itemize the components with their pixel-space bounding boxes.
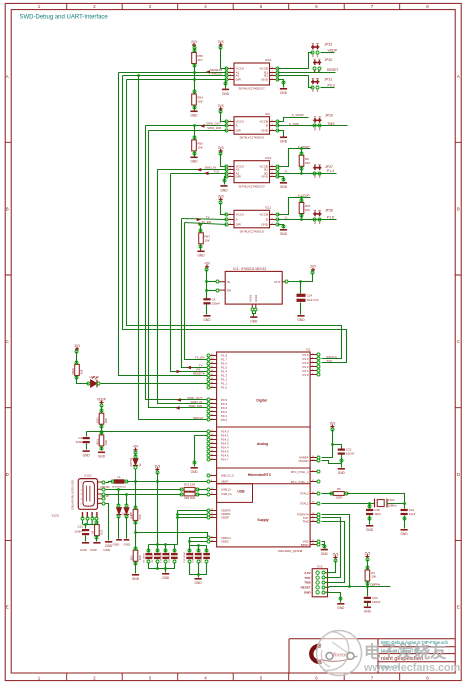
svg-text:R21: R21 bbox=[100, 529, 104, 534]
IC U1 / IC1 XMC4200 main box bbox=[217, 352, 311, 547]
svg-text:RTC_XTAL_2: RTC_XTAL_2 bbox=[291, 470, 309, 474]
wire bbox=[189, 546, 191, 553]
svg-text:XMC4200_QFN48: XMC4200_QFN48 bbox=[278, 549, 303, 553]
wire P1.5 net bbox=[278, 219, 337, 221]
resistor R28 bbox=[99, 413, 104, 424]
svg-text:GND: GND bbox=[261, 78, 269, 82]
svg-text:GND1: GND1 bbox=[249, 294, 253, 302]
svg-text:SWCLK: SWCLK bbox=[193, 416, 204, 420]
supply 2V3 2V3 bbox=[192, 43, 196, 47]
svg-text:GND: GND bbox=[220, 188, 228, 192]
svg-text:3V3: 3V3 bbox=[218, 104, 224, 108]
svg-text:+5V: +5V bbox=[133, 445, 140, 449]
svg-text:3V3: 3V3 bbox=[218, 40, 224, 44]
wire IC11 GND bbox=[278, 225, 284, 229]
svg-text:C11 100nF: C11 100nF bbox=[169, 552, 171, 563]
junction bbox=[197, 544, 200, 547]
svg-text:C: C bbox=[6, 339, 9, 344]
ground bbox=[190, 157, 197, 159]
supply 3V3 3V3 bbox=[311, 268, 315, 272]
wire bbox=[135, 562, 137, 574]
wire TX_EN into IC11 bbox=[185, 223, 227, 225]
wire bbox=[126, 517, 128, 539]
supply +5V +5V bbox=[134, 448, 138, 452]
ground bbox=[124, 539, 130, 541]
wire 3V3 out bbox=[289, 273, 313, 282]
resistor R19 bbox=[133, 509, 138, 520]
svg-text:10uF 6.3V: 10uF 6.3V bbox=[307, 298, 319, 302]
wire TCK into IC12 bbox=[171, 173, 227, 175]
junction bbox=[300, 147, 303, 150]
svg-text:GND: GND bbox=[203, 318, 211, 322]
wire VDDP/2 to IC1 P14.0 bbox=[87, 431, 208, 433]
svg-text:OUT: OUT bbox=[274, 280, 281, 284]
wire PORST to X13 bbox=[322, 515, 350, 587]
svg-text:TX: TX bbox=[206, 215, 210, 219]
wire bbox=[198, 563, 200, 578]
wire bbox=[86, 444, 88, 450]
ground bbox=[98, 452, 105, 454]
wire VSS gnd bbox=[322, 542, 325, 549]
svg-text:100nF: 100nF bbox=[346, 452, 355, 456]
wire VDDC bbox=[190, 541, 208, 543]
ground bbox=[401, 529, 408, 531]
wire to LED13 bbox=[77, 376, 89, 384]
capacitor C12 bbox=[203, 553, 210, 555]
capacitor C18 bbox=[195, 553, 202, 555]
svg-text:GND: GND bbox=[83, 454, 91, 458]
svg-text:5K11: 5K11 bbox=[95, 438, 99, 444]
wire R26 top bbox=[76, 352, 78, 365]
svg-text:GND: GND bbox=[90, 548, 98, 552]
wire D2 riser bbox=[118, 490, 120, 506]
capacitor C33 bbox=[364, 597, 371, 599]
wire bbox=[341, 464, 343, 468]
svg-text:C9 100nF: C9 100nF bbox=[152, 553, 154, 563]
svg-text:B: B bbox=[266, 124, 268, 128]
svg-text:E: E bbox=[6, 605, 9, 610]
wire IC10 GND bbox=[278, 80, 284, 88]
wire RX bus bbox=[171, 174, 208, 372]
ground bbox=[321, 549, 328, 551]
svg-text:GND: GND bbox=[191, 470, 199, 474]
wire TX into IC11 bbox=[182, 219, 227, 220]
wire TX bus bbox=[182, 219, 208, 368]
svg-text:SN74LVC1T45DCK: SN74LVC1T45DCK bbox=[239, 229, 264, 233]
svg-text:X12C: X12C bbox=[84, 474, 92, 478]
svg-text:TMS: TMS bbox=[304, 581, 310, 585]
resistor R55 bbox=[192, 53, 197, 64]
resistor bbox=[184, 492, 195, 496]
wire bbox=[206, 546, 208, 553]
svg-text:DIR: DIR bbox=[236, 175, 242, 179]
wire bbox=[101, 446, 103, 451]
svg-text:Digital: Digital bbox=[256, 399, 266, 403]
resistor R9 bbox=[299, 155, 304, 166]
junction bbox=[300, 218, 303, 221]
svg-text:GND: GND bbox=[280, 140, 288, 144]
supply 3V3 3V3 bbox=[219, 149, 223, 153]
svg-text:R28: R28 bbox=[104, 418, 108, 423]
resistor R37 bbox=[299, 203, 304, 214]
svg-text:VDDP: VDDP bbox=[328, 49, 338, 53]
wire bbox=[318, 71, 320, 73]
junction bbox=[117, 488, 120, 491]
svg-text:5K11: 5K11 bbox=[95, 417, 99, 423]
svg-text:GND: GND bbox=[190, 114, 198, 118]
svg-text:A: A bbox=[457, 74, 460, 79]
wire bbox=[165, 563, 167, 573]
wire R9 top bbox=[301, 149, 303, 156]
ground bbox=[280, 182, 287, 184]
connector X12C micro USB bbox=[78, 479, 97, 510]
op-amp IC12 level shifter bbox=[234, 161, 270, 183]
svg-text:IN: IN bbox=[227, 280, 230, 284]
svg-text:DIR: DIR bbox=[236, 223, 242, 227]
resistor R54 bbox=[192, 94, 197, 105]
svg-text:R5: R5 bbox=[337, 487, 341, 491]
svg-text:GND: GND bbox=[195, 581, 203, 585]
svg-text:R18: R18 bbox=[138, 555, 142, 560]
junction bbox=[299, 280, 302, 283]
LED LED13 bbox=[91, 380, 98, 388]
wire SWCLK bus loop bbox=[127, 80, 342, 359]
svg-text:C: C bbox=[457, 339, 460, 344]
capacitor C13 bbox=[186, 553, 193, 555]
wire 2V3 pullup chain bbox=[194, 48, 196, 95]
wire C22 bottom bbox=[341, 455, 343, 464]
wire SWD_OUT bus bbox=[146, 126, 208, 400]
wire RESET# into IC10 bbox=[119, 72, 227, 74]
svg-text:DIR: DIR bbox=[236, 129, 242, 133]
wire IC12 GND bbox=[278, 177, 284, 182]
resistor R21 bbox=[95, 525, 100, 536]
wire +5V rail bbox=[206, 270, 208, 299]
junction bbox=[176, 513, 179, 516]
wire VDDP to JP32 bbox=[278, 53, 313, 69]
wire TMS to X13 bbox=[322, 522, 345, 583]
wire capB gnd bus bbox=[190, 563, 207, 575]
wire bbox=[253, 314, 255, 317]
svg-text:TCK: TCK bbox=[304, 576, 311, 580]
supply 3V3 3V3 bbox=[219, 107, 223, 111]
ground bbox=[222, 89, 229, 91]
svg-text:XTA2: XTA2 bbox=[388, 498, 395, 502]
wire VAGND bbox=[322, 461, 342, 464]
ground bbox=[83, 450, 90, 452]
wire SWCLK into IC10 bbox=[123, 75, 227, 77]
wire R pullup top bbox=[367, 560, 369, 571]
junction bbox=[199, 223, 202, 226]
junction bbox=[164, 567, 167, 570]
diode V2 bbox=[133, 459, 138, 466]
resistor R5 bbox=[333, 492, 344, 496]
svg-text:BPAD: BPAD bbox=[301, 543, 309, 547]
wire P1.4 net bbox=[278, 173, 337, 175]
supply 3V3 3V3 bbox=[75, 347, 79, 351]
ground bbox=[190, 111, 197, 113]
svg-text:USB: USB bbox=[237, 490, 245, 494]
svg-text:GND: GND bbox=[337, 606, 345, 610]
svg-text:VDDP: VDDP bbox=[97, 397, 106, 401]
wire bbox=[367, 603, 369, 607]
svg-text:P1.5: P1.5 bbox=[327, 215, 334, 219]
svg-text:22R R40: 22R R40 bbox=[184, 496, 195, 500]
wire TMS net bbox=[278, 125, 348, 127]
svg-text:IC9: IC9 bbox=[265, 112, 270, 116]
svg-text:GND: GND bbox=[250, 320, 258, 324]
wire VBUS jog bbox=[106, 482, 113, 483]
svg-text:SWD-Debug and UART-Interface: SWD-Debug and UART-Interface bbox=[20, 15, 109, 21]
svg-text:GND: GND bbox=[261, 223, 269, 227]
svg-text:A: A bbox=[236, 124, 238, 128]
wire R50 chain bbox=[194, 126, 196, 140]
svg-text:_6_: _6_ bbox=[283, 215, 289, 219]
ground bbox=[280, 229, 287, 231]
svg-text:VAGND: VAGND bbox=[298, 459, 308, 463]
supply 3V3 3V3 bbox=[155, 468, 159, 472]
wire D8 riser bbox=[126, 495, 128, 506]
svg-text:RESET#: RESET# bbox=[193, 372, 205, 376]
wire to IN bbox=[207, 281, 217, 283]
svg-text:GND: GND bbox=[261, 129, 269, 133]
wire IC9 GND bbox=[278, 131, 284, 137]
wire bbox=[404, 516, 406, 529]
svg-text:C21: C21 bbox=[77, 525, 83, 529]
svg-text:10K: 10K bbox=[197, 100, 202, 104]
title block frame bbox=[289, 639, 455, 673]
svg-text:TCK: TCK bbox=[214, 169, 220, 173]
capacitor bbox=[82, 529, 89, 531]
wire 3V3 to IC11 VCCA bbox=[221, 203, 227, 215]
ground bbox=[203, 315, 210, 317]
junction bbox=[205, 289, 208, 292]
wire SWCLK to IC1 left bbox=[139, 76, 208, 420]
svg-text:www.elecfans.com: www.elecfans.com bbox=[363, 662, 460, 674]
wire 3V3 to IC9 VCCA bbox=[221, 112, 227, 122]
svg-text:D: D bbox=[6, 472, 9, 477]
svg-text:GND: GND bbox=[124, 543, 132, 547]
svg-text:10K: 10K bbox=[305, 161, 310, 165]
wire USB gnd pin bbox=[106, 504, 109, 541]
supply +5V +5V bbox=[205, 265, 209, 269]
svg-text:3V3: 3V3 bbox=[74, 344, 80, 348]
wire VDDP net bbox=[278, 118, 309, 122]
svg-text:HIB_IO_0: HIB_IO_0 bbox=[221, 474, 234, 478]
svg-text:TX_EN: TX_EN bbox=[195, 356, 205, 360]
wire capB bus bbox=[190, 545, 207, 547]
wire bbox=[194, 105, 196, 111]
resistor R18 bbox=[133, 550, 138, 561]
wire TCK to X13 bbox=[322, 518, 341, 578]
capacitor C22 bbox=[338, 449, 345, 451]
wire SWD_OUT into IC9 bbox=[146, 125, 227, 127]
wire 3.3V to X13 bbox=[329, 561, 336, 573]
svg-text:3V3: 3V3 bbox=[365, 551, 371, 555]
svg-text:RESET: RESET bbox=[327, 68, 340, 72]
wire bbox=[200, 244, 202, 251]
crystal Q2 25MHz bbox=[375, 499, 388, 508]
svg-text:BAT760: BAT760 bbox=[130, 457, 133, 466]
op-amp IC9 level shifter bbox=[234, 117, 270, 135]
svg-text:3.3V: 3.3V bbox=[304, 571, 310, 575]
resistor R26 bbox=[75, 364, 80, 375]
wire bbox=[174, 545, 176, 553]
wire JP32 out bbox=[321, 52, 335, 54]
svg-text:2V3: 2V3 bbox=[191, 40, 197, 44]
wire XTAL2 net bbox=[347, 494, 405, 509]
wire R37 top bbox=[301, 198, 303, 203]
capacitor C10 bbox=[162, 553, 169, 555]
svg-text:SN74LVC2T45DCUT: SN74LVC2T45DCUT bbox=[239, 184, 266, 188]
supply 3V3 3V3 bbox=[330, 425, 334, 429]
capacitor C9 bbox=[154, 553, 161, 555]
svg-text:680R: 680R bbox=[71, 368, 75, 374]
svg-text:GND: GND bbox=[401, 532, 409, 536]
svg-text:P0.0: P0.0 bbox=[221, 418, 227, 422]
inductor L1 ferrite bbox=[114, 479, 125, 483]
junction bbox=[193, 71, 196, 74]
ground bbox=[116, 539, 122, 541]
svg-text:Supply: Supply bbox=[257, 518, 268, 522]
junction bbox=[193, 78, 196, 81]
svg-text:+5V: +5V bbox=[204, 262, 211, 266]
supply 3V3 3V3 bbox=[365, 555, 369, 559]
wire VDD5 rail to VBAT bbox=[127, 481, 208, 483]
wire X13 gnd bbox=[329, 593, 341, 603]
svg-text:A: A bbox=[236, 218, 238, 222]
capacitor C30 bbox=[366, 509, 373, 511]
svg-text:C10 100nF: C10 100nF bbox=[160, 551, 162, 562]
wire bbox=[300, 303, 302, 315]
wire to EN bbox=[207, 290, 217, 292]
svg-text:USB_D-: USB_D- bbox=[221, 488, 232, 492]
svg-text:4K7: 4K7 bbox=[197, 58, 203, 62]
supply 3V3 3V3 bbox=[219, 198, 223, 202]
svg-text:SN74LVC1T45DCK: SN74LVC1T45DCK bbox=[239, 136, 264, 140]
svg-text:EN: EN bbox=[227, 288, 231, 292]
svg-text:USB_D+: USB_D+ bbox=[221, 492, 233, 496]
wire bbox=[198, 546, 200, 553]
svg-text:12pF: 12pF bbox=[409, 512, 416, 516]
wire C14 riser bbox=[300, 282, 302, 294]
wire VBUS sense bbox=[136, 533, 208, 538]
svg-text:IC1: IC1 bbox=[306, 347, 311, 351]
junction bbox=[300, 172, 303, 175]
svg-text:3V3: 3V3 bbox=[330, 421, 336, 425]
junction bbox=[403, 502, 406, 505]
junction bbox=[300, 196, 303, 199]
junction bbox=[156, 567, 159, 570]
svg-text:VCCB: VCCB bbox=[260, 213, 268, 217]
ground bbox=[191, 467, 198, 469]
svg-text:E: E bbox=[457, 605, 460, 610]
junction bbox=[134, 531, 137, 534]
svg-text:100nF: 100nF bbox=[212, 301, 221, 305]
wire VDDP1 bbox=[178, 514, 208, 516]
wire IC4 gnd join bbox=[253, 311, 256, 314]
wire capA gnd bus bbox=[149, 563, 175, 569]
wire SWD_DIR into IC9 bbox=[149, 130, 227, 132]
svg-text:SWD_DIR: SWD_DIR bbox=[188, 404, 203, 408]
wire SWD_IN into IC12 bbox=[158, 169, 227, 171]
wire VDDP riser bbox=[177, 511, 179, 545]
op-amp IC11 level shifter bbox=[234, 210, 270, 228]
svg-text:R19: R19 bbox=[138, 514, 142, 519]
wire TCK bus loop bbox=[123, 76, 347, 363]
wire VDDP2 bbox=[178, 510, 208, 512]
junction bbox=[205, 280, 208, 283]
wire R37 bottom bbox=[301, 214, 303, 220]
svg-text:电子发烧友: 电子发烧友 bbox=[364, 642, 447, 662]
junction bbox=[176, 516, 179, 519]
junction bbox=[188, 540, 191, 543]
wire bbox=[148, 545, 150, 553]
wire TX_EN bus bbox=[185, 223, 208, 360]
wire VDDC riser bbox=[189, 538, 191, 546]
ground bbox=[364, 607, 371, 609]
wire SWD_DIR bus bbox=[149, 131, 208, 408]
junction bbox=[100, 430, 103, 433]
svg-text:IC12: IC12 bbox=[265, 156, 272, 160]
junction bbox=[134, 480, 137, 483]
ground bbox=[338, 468, 345, 470]
ground bbox=[82, 542, 89, 544]
svg-text:JP32: JP32 bbox=[324, 42, 332, 46]
wire VDDP net g4 bbox=[278, 198, 311, 215]
svg-text:_6_: _6_ bbox=[283, 169, 289, 173]
wire bbox=[198, 494, 208, 496]
wire C30 riser bbox=[369, 504, 371, 509]
svg-text:B: B bbox=[457, 207, 460, 212]
svg-text:GND: GND bbox=[132, 577, 140, 581]
supply 3V3 3V3 bbox=[334, 556, 338, 560]
diode D8 bbox=[124, 508, 129, 515]
svg-text:VBAT: VBAT bbox=[221, 480, 229, 484]
diode D2 bbox=[116, 508, 121, 515]
svg-text:GND: GND bbox=[103, 548, 111, 552]
svg-text:IC11: IC11 bbox=[265, 206, 271, 210]
svg-text:10K: 10K bbox=[371, 574, 376, 578]
svg-text:TCK: TCK bbox=[326, 359, 332, 363]
svg-text:10K: 10K bbox=[305, 208, 310, 212]
svg-text:P1.0: P1.0 bbox=[221, 386, 227, 390]
resistor R50 bbox=[192, 140, 197, 151]
svg-text:10K: 10K bbox=[204, 238, 209, 242]
svg-text:Analog: Analog bbox=[257, 442, 269, 446]
svg-text:R26: R26 bbox=[80, 369, 84, 374]
wire USB D- wire bbox=[106, 489, 182, 491]
svg-text:TMS: TMS bbox=[302, 520, 308, 524]
svg-text:SWD_OUT: SWD_OUT bbox=[206, 122, 221, 126]
capacitor C4 bbox=[203, 298, 210, 300]
ground bbox=[162, 573, 169, 575]
svg-text:GND: GND bbox=[366, 528, 374, 532]
svg-text:100nF: 100nF bbox=[75, 440, 84, 444]
svg-text:SWD_DIR: SWD_DIR bbox=[207, 126, 222, 130]
svg-text:100nF: 100nF bbox=[372, 600, 381, 604]
wire bbox=[157, 563, 159, 569]
wire IC10 left gnd stub bbox=[225, 81, 227, 89]
ground bbox=[105, 541, 112, 543]
ground bbox=[93, 542, 100, 544]
op-amp IC10 level shifter bbox=[234, 63, 270, 85]
svg-text:P0.0: P0.0 bbox=[328, 83, 335, 87]
svg-text:P14.7: P14.7 bbox=[221, 458, 229, 462]
svg-text:JP30: JP30 bbox=[324, 58, 332, 62]
supply VDDP VDDP bbox=[100, 401, 104, 405]
wire BPAD gnd bbox=[322, 544, 325, 546]
